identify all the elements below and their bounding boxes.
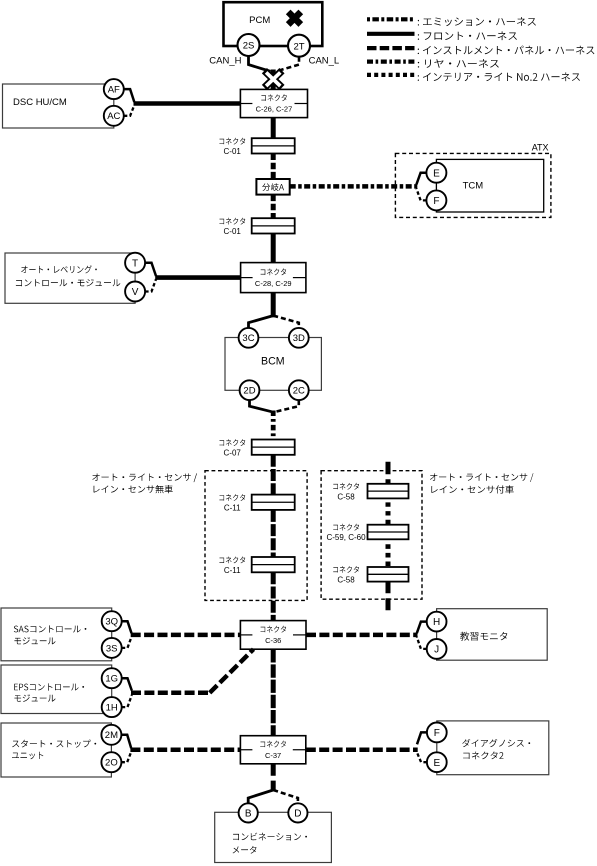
pin 2T (288, 35, 310, 57)
module TCM box (436, 159, 543, 212)
connector C-59, C-60 symbol (368, 525, 409, 540)
svg-text:C-36: C-36 (265, 636, 281, 645)
label CAN_H (209, 56, 241, 67)
label connector C-01 (upper) (219, 138, 245, 157)
legend interior-light-No.2-harness sample line (367, 72, 580, 81)
svg-text:F: F (433, 196, 439, 207)
wire right variant chain bottom (rear harness) (386, 581, 391, 611)
svg-text:V: V (132, 287, 139, 298)
label connector C-07 (219, 439, 245, 458)
pin 2D (240, 380, 260, 400)
module diagnosis-connector-2 box (437, 721, 549, 775)
wire to 3D (273, 316, 299, 329)
junction box 分岐A (256, 179, 289, 195)
pin E (TCM) (426, 163, 446, 183)
wire C-28 box down (271, 293, 276, 318)
module EPS control box (1, 665, 112, 714)
svg-text:E: E (433, 758, 440, 769)
svg-text:2C: 2C (293, 386, 305, 397)
pin AF (104, 79, 124, 99)
wire from 1G (122, 678, 132, 690)
svg-text:CAN_L: CAN_L (309, 56, 340, 67)
pin 1H (102, 697, 122, 717)
connector C-28, C-29 box (241, 263, 306, 293)
pin T (125, 253, 145, 273)
wire C-01 to 分岐A (inst.panel harness) (271, 154, 276, 180)
wire BCM to C-07 (interior light No.2 harness) (271, 411, 276, 440)
svg-text:PCM: PCM (249, 15, 270, 26)
wire trunk to connector C-26 (271, 70, 276, 90)
connector C-01 (lower) symbol (252, 218, 295, 233)
svg-text:B: B (245, 809, 252, 820)
wire from 2D (250, 400, 272, 412)
wire C-37 down to meter split (271, 764, 276, 792)
pin F (TCM) (426, 190, 446, 210)
pin D (288, 803, 307, 822)
wire from 2C (276, 400, 299, 412)
wire to F (diag) (417, 732, 427, 744)
pin E (diag) (427, 752, 447, 772)
connector C-37 box (240, 736, 305, 764)
svg-text:C-59, C-60: C-59, C-60 (326, 533, 366, 542)
wire auto-leveling to C-28 (front harness) (155, 275, 240, 280)
svg-text:AF: AF (108, 85, 120, 96)
svg-text:3Q: 3Q (105, 617, 118, 628)
wire CAN_H from 2S (249, 56, 271, 71)
wire C-26 box to C-01 (271, 118, 276, 139)
module start-stop unit box (1, 723, 111, 777)
svg-text:BCM: BCM (261, 356, 285, 368)
label connector C-11 (upper) (219, 494, 245, 512)
svg-text:2D: 2D (243, 386, 255, 397)
ATX dashed group box (395, 143, 551, 218)
label connector C-59, C-60 (326, 524, 366, 543)
dashed variant box (no sensor) (205, 471, 307, 601)
svg-text:3C: 3C (242, 333, 254, 344)
pin J (427, 639, 447, 659)
wire to 3C (249, 316, 274, 329)
wire C-11 to C-36 (271, 572, 276, 620)
label connector C-01 (lower) (219, 218, 245, 237)
pin AC (104, 106, 124, 126)
svg-text:C-26, C-27: C-26, C-27 (256, 105, 293, 114)
svg-text:C-58: C-58 (337, 492, 355, 501)
legend instrument-panel-harness sample line (367, 46, 594, 55)
pin H (427, 612, 447, 632)
dashed variant box (with sensor) (321, 471, 422, 600)
svg-text:C-11: C-11 (224, 504, 241, 513)
module BCM box (225, 338, 321, 391)
wire C-36 to C-37 (inst.panel harness) (271, 649, 276, 736)
connector C-26, C-27 box (240, 89, 307, 117)
wire SAS to C-36 (inst.panel harness) (131, 633, 241, 638)
svg-text:T: T (132, 258, 138, 269)
wire to J (417, 637, 427, 649)
svg-text:2S: 2S (243, 41, 255, 52)
pin B (239, 803, 258, 822)
pin 3C (239, 328, 259, 348)
svg-text:H: H (433, 617, 440, 628)
legend emission-harness sample line (367, 17, 536, 26)
wire to H (417, 622, 427, 634)
wire right variant chain top (rear harness) (386, 462, 391, 484)
label with-auto-light-sensor variant (430, 473, 533, 493)
svg-text:ATX: ATX (532, 143, 549, 153)
pin 2C (289, 380, 309, 400)
wire from AC (124, 105, 135, 116)
connector C-07 symbol (252, 440, 295, 455)
label connector C-58 (upper) (333, 483, 359, 502)
svg-text:1G: 1G (105, 674, 118, 685)
module DSC HU/CM box (3, 84, 114, 128)
svg-text:2O: 2O (105, 758, 118, 769)
svg-text:C-28, C-29: C-28, C-29 (255, 279, 292, 288)
wire right chain C-58 to C-59 (interior light harness) (386, 502, 391, 524)
wire C-36 to monitor (inst.panel harness) (306, 633, 418, 638)
legend front-harness sample line (367, 31, 517, 40)
connector C-11 (lower) symbol (252, 557, 295, 572)
wire to E (diag) (417, 753, 427, 763)
wire start-stop to C-37 (inst.panel harness) (130, 748, 240, 753)
svg-text:3S: 3S (106, 643, 118, 654)
module SAS control box (1, 608, 112, 661)
pin 3S (102, 638, 122, 658)
pin 2M (101, 725, 121, 745)
wire C-01 to C-28 box (271, 234, 276, 263)
connector C-11 (upper) symbol (252, 495, 295, 510)
svg-text:C-01: C-01 (224, 227, 242, 236)
PCM fault X mark (288, 12, 301, 25)
svg-text:C-58: C-58 (337, 576, 355, 585)
label no-auto-light-sensor variant (92, 473, 197, 493)
wire to D (273, 790, 298, 804)
connector C-58 (upper) symbol (368, 484, 409, 499)
wire from 2M (121, 735, 131, 748)
wire from V (145, 279, 156, 291)
wire from 1H (122, 695, 132, 707)
svg-text:J: J (434, 645, 439, 656)
svg-text:TCM: TCM (463, 181, 484, 192)
module combination-meter box (215, 812, 332, 862)
pin 3Q (102, 611, 122, 631)
wire to F (416, 189, 426, 201)
pin V (125, 282, 145, 302)
wire 分岐A to C-01 lower (271, 195, 276, 219)
wire from AF (124, 89, 135, 102)
svg-text:D: D (294, 809, 301, 820)
pin 3D (289, 328, 309, 348)
wire C-37 to diagnosis (inst.panel harness) (306, 748, 418, 753)
wire EPS diagonal to C-36 (210, 649, 254, 693)
twisted-pair junction X (264, 71, 282, 88)
wire from 3Q (122, 621, 132, 633)
label connector C-58 (lower) (333, 566, 359, 585)
svg-text:2T: 2T (293, 41, 304, 52)
wire from 2O (121, 752, 131, 762)
svg-text:C-07: C-07 (224, 449, 242, 458)
wire 分岐A to TCM (emission harness) (290, 184, 418, 189)
wire right chain C-59 to C-58 (interior light harness) (386, 544, 391, 567)
wire C-07 to C-11 (271, 455, 276, 495)
pin 2S (238, 34, 260, 56)
wire C-11 to C-11 (271, 510, 276, 557)
svg-text:C-11: C-11 (224, 566, 241, 575)
connector C-01 (upper) symbol (252, 138, 295, 153)
svg-text:DSC HU/CM: DSC HU/CM (13, 97, 67, 108)
svg-text:C-01: C-01 (224, 147, 242, 156)
legend rear-harness sample line (367, 59, 499, 68)
module PCM box (224, 2, 323, 46)
wire from 3S (122, 637, 132, 648)
wire to E (416, 173, 426, 185)
connector C-58 (lower) symbol (368, 567, 409, 582)
wire to B (248, 790, 273, 804)
svg-text:CAN_H: CAN_H (209, 56, 241, 67)
label connector C-11 (lower) (219, 557, 245, 576)
wire from T (145, 263, 156, 276)
pin 1G (102, 668, 122, 688)
label CAN_L (309, 56, 340, 67)
pin F (diag) (427, 723, 447, 743)
svg-text:E: E (433, 168, 440, 179)
wire DSC to C-26 (front harness) (134, 101, 241, 106)
wire CAN_L from 2T (276, 57, 299, 72)
svg-text:3D: 3D (293, 333, 305, 344)
svg-text:1H: 1H (106, 703, 118, 714)
svg-text:2M: 2M (105, 730, 118, 741)
module driving-monitor box (437, 609, 548, 661)
module auto-leveling box (5, 253, 135, 303)
pin 2O (101, 752, 121, 772)
wire EPS horizontal (inst.panel harness) (131, 691, 210, 696)
svg-text:F: F (434, 728, 440, 739)
svg-text:C-37: C-37 (265, 751, 281, 760)
connector C-36 box (240, 621, 306, 650)
svg-text:AC: AC (107, 111, 120, 122)
